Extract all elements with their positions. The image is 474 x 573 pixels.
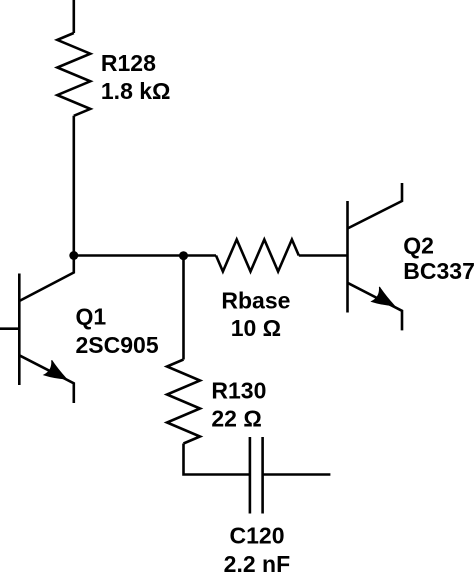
transistor Q1 emitter arrow (44, 360, 67, 379)
svg-text:1.8 kΩ: 1.8 kΩ (101, 78, 171, 104)
wire supply feed to R128 (73, 0, 76, 33)
transistor Q2 collector lead (348, 183, 403, 229)
transistor Q1 base lead wire (0, 327, 19, 330)
transistor Q1 collector lead (19, 256, 74, 302)
transistor Q2 base bar (346, 201, 349, 313)
svg-text:C120: C120 (230, 523, 285, 549)
capacitor C120 left plate (249, 437, 252, 514)
transistor Q2 emitter lead (348, 283, 403, 331)
wire R130 to C120 (184, 444, 250, 475)
wire Rbase to Q2 base (299, 254, 348, 257)
transistor Q1 emitter lead (19, 355, 74, 403)
svg-text:2SC905: 2SC905 (76, 332, 159, 358)
svg-text:10 Ω: 10 Ω (231, 315, 281, 341)
resistor Rbase (216, 240, 299, 272)
svg-text:Rbase: Rbase (221, 288, 290, 314)
resistor R128 (57, 33, 90, 116)
svg-text:BC337: BC337 (403, 258, 474, 284)
wire R128 to node A (73, 116, 76, 256)
svg-text:2.2 nF: 2.2 nF (224, 551, 290, 573)
wire node B down to R130 (182, 256, 185, 360)
wire node B to Rbase (184, 254, 217, 257)
capacitor C120 right plate (261, 437, 264, 514)
svg-text:Q2: Q2 (403, 232, 434, 258)
svg-text:R130: R130 (211, 378, 266, 404)
wire node A to node B (74, 254, 184, 257)
node A junction dot (69, 251, 78, 260)
svg-text:22 Ω: 22 Ω (211, 405, 261, 431)
resistor R130 (167, 360, 200, 444)
wire C120 right lead (263, 473, 331, 476)
svg-text:Q1: Q1 (76, 304, 107, 330)
transistor Q1 base bar (18, 274, 21, 386)
node B junction dot (179, 251, 188, 260)
transistor Q2 emitter arrow (372, 287, 395, 306)
svg-text:R128: R128 (101, 50, 156, 76)
